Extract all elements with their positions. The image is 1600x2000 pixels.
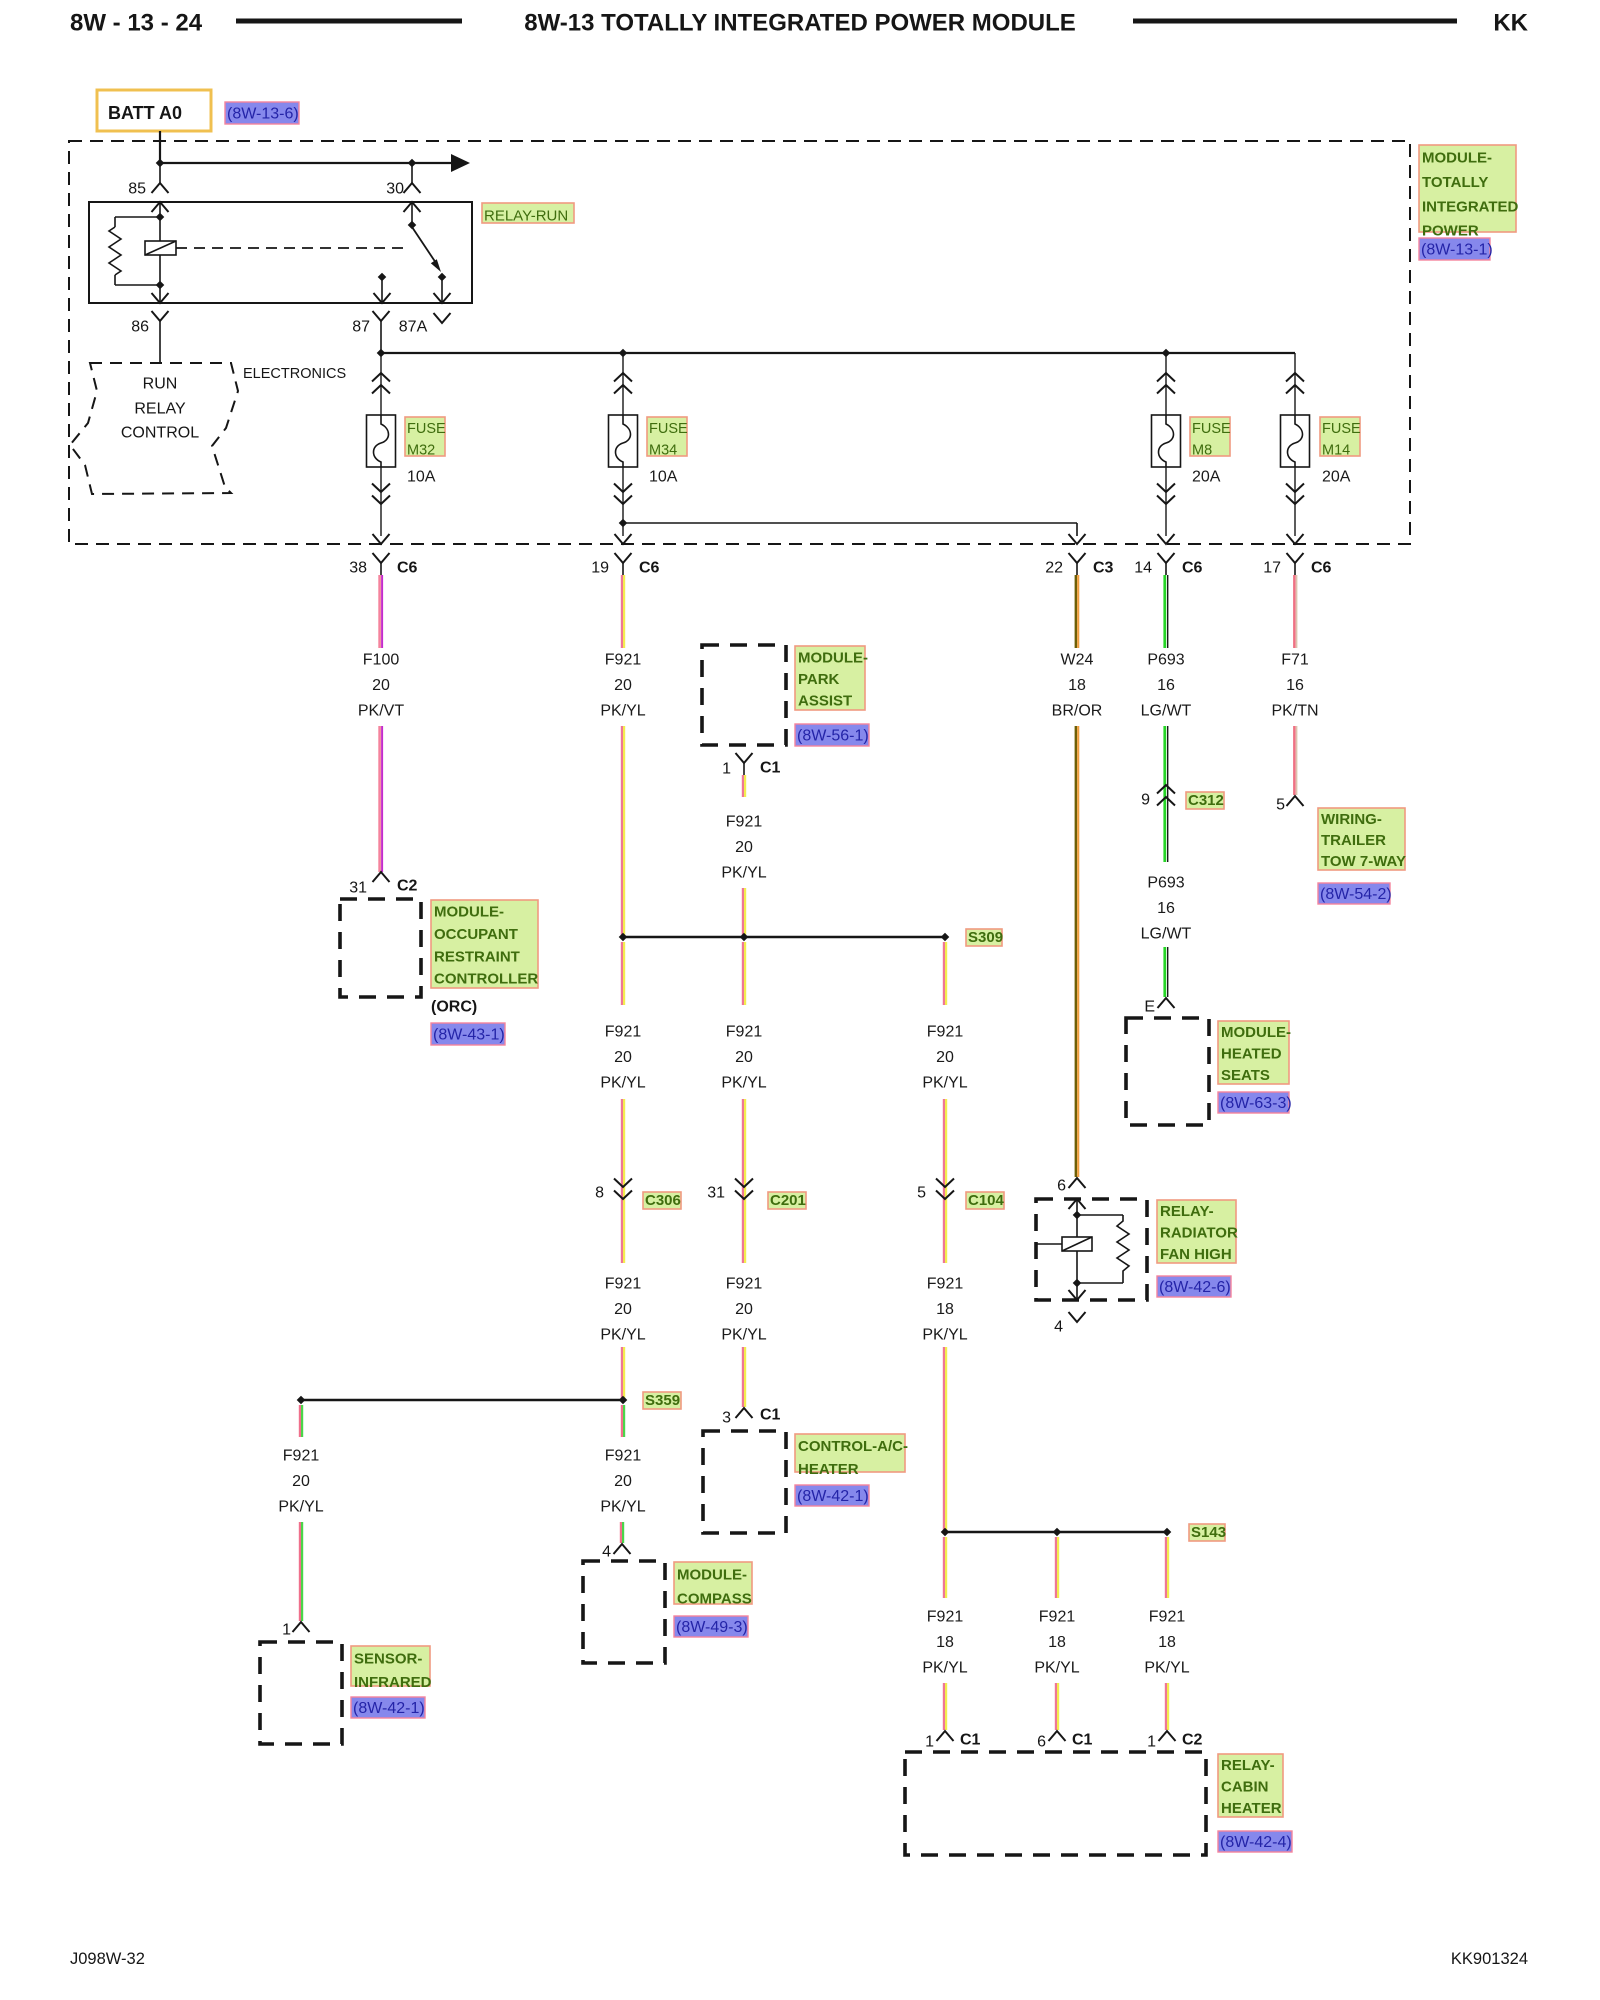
svg-text:SENSOR-: SENSOR-: [354, 1650, 422, 1667]
relay pin 87 stem: [381, 277, 383, 303]
reference label (8W-56-1): [795, 724, 869, 746]
label MODULE-TOTALLY INTEGRATED POWER: [1419, 145, 1516, 232]
wire S309 branch stub x945: [943, 942, 945, 1005]
relay pin 86 exit arrow: [159, 285, 161, 303]
reference label (8W-42-1) ac: [795, 1485, 869, 1506]
node S309 junction left: [619, 933, 628, 942]
svg-text:31: 31: [707, 1185, 725, 1202]
pin 38 C6: [373, 553, 390, 563]
node bus junction 87: [377, 349, 386, 358]
svg-text:87: 87: [352, 319, 370, 336]
node switch common: [408, 221, 417, 230]
connector pin 5 trailer: [1287, 796, 1304, 806]
radiator relay resistor: [1077, 1214, 1123, 1216]
svg-text:PK/YL: PK/YL: [600, 1075, 645, 1092]
wire S143 stub x1167: [1165, 1537, 1167, 1598]
wire to inline connector x744: [742, 1099, 744, 1263]
node S359 junction left: [297, 1396, 306, 1405]
svg-text:C2: C2: [1182, 1732, 1203, 1749]
svg-text:S143: S143: [1191, 1524, 1226, 1541]
pin 19 C6: [615, 553, 632, 563]
module COMPASS boundary: [583, 1561, 665, 1663]
svg-text:C201: C201: [770, 1192, 806, 1209]
svg-text:TOW 7-WAY: TOW 7-WAY: [1321, 853, 1406, 870]
svg-text:M34: M34: [649, 442, 677, 458]
module CONTROL-A/C-HEATER boundary: [703, 1431, 786, 1533]
svg-text:PK/YL: PK/YL: [600, 1499, 645, 1516]
relay RADIATOR FAN HIGH boundary: [1036, 1199, 1147, 1300]
svg-text:9: 9: [1141, 792, 1150, 809]
svg-text:(8W-56-1): (8W-56-1): [797, 728, 869, 745]
svg-text:C312: C312: [1188, 792, 1224, 809]
node S143 junction middle: [1053, 1528, 1062, 1537]
module ORC boundary: [340, 899, 421, 997]
connector C104: [936, 1191, 954, 1200]
svg-text:HEATER: HEATER: [1221, 1800, 1282, 1817]
svg-text:ASSIST: ASSIST: [798, 693, 852, 710]
svg-text:LG/WT: LG/WT: [1141, 926, 1192, 943]
svg-text:20: 20: [936, 1049, 954, 1066]
relay switch blade: [412, 227, 436, 263]
node junction above pin 30: [408, 159, 417, 168]
node coil top junction: [156, 213, 165, 222]
svg-text:(8W-42-1): (8W-42-1): [353, 1700, 425, 1717]
svg-text:WIRING-: WIRING-: [1321, 811, 1382, 828]
svg-text:C1: C1: [1072, 1732, 1093, 1749]
fuse M32: [367, 415, 396, 467]
wire bus drop to fuse M14: [1294, 353, 1296, 415]
svg-text:FUSE: FUSE: [649, 421, 688, 437]
svg-text:PK/YL: PK/YL: [600, 703, 645, 720]
svg-text:8: 8: [595, 1185, 604, 1202]
wire W24 segment 2: [1075, 726, 1077, 1177]
wire BATT A0 feed: [159, 131, 161, 163]
wire F71 segment 2: [1293, 726, 1296, 795]
svg-text:6: 6: [1057, 1178, 1066, 1195]
svg-text:F921: F921: [726, 1024, 763, 1041]
node junction A: [156, 159, 165, 168]
svg-text:86: 86: [131, 319, 149, 336]
wire F921 park assist segment: [742, 775, 744, 797]
wire branch M34 to C3 drop: [623, 522, 1077, 524]
svg-text:1: 1: [282, 1622, 291, 1639]
svg-text:KK: KK: [1493, 10, 1528, 37]
svg-text:85: 85: [128, 181, 146, 198]
fuse M8: [1152, 415, 1181, 467]
node coil bottom junction: [156, 281, 165, 290]
svg-text:PK/YL: PK/YL: [721, 1075, 766, 1092]
label CONTROL-A/C-HEATER: [795, 1434, 905, 1472]
module edge exit chevron M14 column: [1287, 534, 1304, 544]
wire W24 18 BR/OR segment 1: [1075, 575, 1077, 648]
header rule left: [236, 19, 462, 24]
svg-text:C6: C6: [1311, 560, 1332, 577]
svg-text:18: 18: [936, 1301, 954, 1318]
block RUN RELAY CONTROL: [70, 363, 238, 494]
svg-text:RUN: RUN: [143, 376, 178, 393]
svg-text:1: 1: [1147, 1734, 1156, 1751]
svg-text:C306: C306: [645, 1192, 681, 1209]
module edge exit chevron M32 column: [373, 534, 390, 544]
wire S143 stub x1057: [1055, 1537, 1057, 1598]
svg-text:C2: C2: [397, 878, 418, 895]
continuation arrow: [451, 154, 470, 172]
svg-text:(ORC): (ORC): [431, 999, 477, 1016]
svg-text:5: 5: [917, 1185, 926, 1202]
svg-text:M14: M14: [1322, 442, 1350, 458]
svg-text:(8W-43-1): (8W-43-1): [433, 1027, 505, 1044]
svg-text:30: 30: [386, 181, 404, 198]
svg-text:(8W-49-3): (8W-49-3): [676, 1619, 748, 1636]
svg-text:PK/YL: PK/YL: [922, 1660, 967, 1677]
svg-text:C1: C1: [760, 760, 781, 777]
module edge exit chevron M8 column: [1158, 534, 1175, 544]
svg-text:1: 1: [722, 761, 731, 778]
svg-text:RELAY: RELAY: [134, 401, 186, 418]
wire compass drop: [620, 1522, 622, 1543]
connector C201: [735, 1191, 753, 1200]
connector pin 4 radiator relay: [1069, 1312, 1086, 1322]
svg-text:20: 20: [614, 677, 632, 694]
svg-text:22: 22: [1045, 560, 1063, 577]
svg-text:PK/YL: PK/YL: [922, 1327, 967, 1344]
pin 17 C6: [1287, 553, 1304, 563]
svg-text:MODULE-: MODULE-: [1422, 150, 1492, 167]
svg-text:F921: F921: [927, 1276, 964, 1293]
label FUSE M34: [647, 417, 687, 456]
svg-text:CABIN: CABIN: [1221, 1778, 1269, 1795]
svg-text:F921: F921: [1149, 1609, 1186, 1626]
svg-text:S309: S309: [968, 929, 1003, 946]
relay RELAY-RUN outline: [89, 202, 472, 303]
reference label (8W-42-4): [1218, 1831, 1292, 1852]
wire S143 drop x1167: [1165, 1683, 1167, 1730]
svg-text:31: 31: [349, 880, 367, 897]
svg-text:ELECTRONICS: ELECTRONICS: [243, 366, 346, 382]
svg-text:PK/YL: PK/YL: [1034, 1660, 1079, 1677]
svg-text:F71: F71: [1281, 652, 1309, 669]
svg-text:F921: F921: [283, 1448, 320, 1465]
pin 22 C3: [1069, 553, 1086, 563]
wire F921 20 PK/YL segment 1 (pin 19): [621, 575, 623, 648]
svg-text:18: 18: [1158, 1634, 1176, 1651]
svg-text:E: E: [1144, 999, 1155, 1016]
label C306: [643, 1192, 681, 1209]
wire sensor drop: [299, 1522, 301, 1621]
svg-text:20: 20: [735, 839, 753, 856]
svg-text:S359: S359: [645, 1392, 680, 1409]
connector chevrons above fuse M8: [1157, 373, 1175, 382]
module SENSOR-INFRARED boundary: [260, 1642, 342, 1744]
splice S143 bus: [945, 1531, 1167, 1534]
svg-text:6: 6: [1037, 1734, 1046, 1751]
svg-text:20: 20: [614, 1473, 632, 1490]
fuse M34: [609, 415, 638, 467]
connector C312: [1157, 785, 1175, 794]
svg-text:4: 4: [1054, 1319, 1063, 1336]
label S359: [643, 1392, 681, 1409]
label S309: [966, 929, 1002, 946]
wire internal bus: [381, 352, 1295, 354]
svg-text:CONTROLLER: CONTROLLER: [434, 971, 538, 988]
svg-text:20: 20: [372, 677, 390, 694]
label C201: [768, 1192, 806, 1209]
reference label (8W-63-3): [1218, 1092, 1289, 1113]
svg-text:PK/VT: PK/VT: [358, 703, 404, 720]
wire P693 segment 3: [1163, 947, 1166, 997]
svg-text:18: 18: [936, 1634, 954, 1651]
connector 31 C2: [373, 872, 390, 882]
label SENSOR-INFRARED: [351, 1646, 430, 1686]
relay pin 87A stem: [441, 277, 443, 303]
svg-text:1: 1: [925, 1734, 934, 1751]
reference label (8W-43-1): [431, 1023, 505, 1045]
relay pin 85 entry arrow: [152, 202, 169, 212]
svg-text:MODULE-: MODULE-: [1221, 1024, 1291, 1041]
connector chevrons below fuse M14: [1286, 496, 1304, 505]
connector chevrons above fuse M32: [372, 373, 390, 382]
relay coil K1: [145, 241, 176, 255]
splice S309 bus: [623, 936, 945, 939]
label MODULE-COMPASS: [674, 1562, 752, 1604]
svg-text:F921: F921: [605, 1276, 642, 1293]
connector 3 C1: [736, 1408, 753, 1418]
module edge exit chevron C3 column: [1069, 534, 1086, 544]
svg-text:PK/TN: PK/TN: [1271, 703, 1318, 720]
svg-text:CONTROL: CONTROL: [121, 425, 199, 442]
reference label (8W-42-1) sensor: [351, 1697, 425, 1718]
svg-text:KK901324: KK901324: [1451, 1950, 1528, 1968]
node BATT A0: [97, 90, 211, 131]
wire P693 segment 2: [1163, 726, 1166, 862]
pin 1 C1 park assist: [736, 753, 753, 763]
svg-text:PK/YL: PK/YL: [278, 1499, 323, 1516]
svg-text:20: 20: [735, 1301, 753, 1318]
wire S143 drop x945: [943, 1683, 945, 1730]
svg-text:20: 20: [735, 1049, 753, 1066]
connector chevrons below fuse M32: [372, 496, 390, 505]
wire bus drop to fuse M8: [1165, 353, 1167, 415]
svg-text:TOTALLY: TOTALLY: [1422, 174, 1488, 191]
svg-text:PK/YL: PK/YL: [922, 1075, 967, 1092]
svg-text:POWER: POWER: [1422, 223, 1479, 240]
svg-text:C6: C6: [397, 560, 418, 577]
node switch NC contact: [378, 273, 387, 282]
svg-text:RADIATOR: RADIATOR: [1160, 1224, 1238, 1241]
reference label (8W-42-6): [1157, 1276, 1231, 1297]
svg-text:INFRARED: INFRARED: [354, 1674, 432, 1691]
svg-text:8W-13 TOTALLY INTEGRATED POWER: 8W-13 TOTALLY INTEGRATED POWER MODULE: [524, 10, 1076, 37]
radiator relay coil: [1062, 1237, 1092, 1251]
svg-text:FUSE: FUSE: [407, 421, 446, 437]
svg-text:RELAY-RUN: RELAY-RUN: [484, 208, 568, 225]
svg-text:18: 18: [1068, 677, 1086, 694]
relay pin 30 entry arrow: [404, 202, 421, 212]
reference label (8W-13-1): [1419, 238, 1490, 260]
svg-text:87A: 87A: [399, 319, 428, 336]
wire bus drop to fuse M32: [380, 353, 382, 415]
svg-text:PK/YL: PK/YL: [1144, 1660, 1189, 1677]
svg-text:F921: F921: [605, 652, 642, 669]
svg-text:16: 16: [1157, 900, 1175, 917]
wire F100 segment 2: [378, 726, 381, 872]
svg-text:HEATER: HEATER: [798, 1461, 859, 1478]
relay suppression resistor: [115, 216, 160, 218]
svg-text:18: 18: [1048, 1634, 1066, 1651]
svg-text:14: 14: [1134, 560, 1152, 577]
svg-text:F921: F921: [1039, 1609, 1076, 1626]
wire F921 to S143: [943, 1347, 945, 1532]
node S143 junction right: [1163, 1528, 1172, 1537]
svg-text:(8W-42-4): (8W-42-4): [1220, 1834, 1292, 1851]
svg-text:F921: F921: [605, 1024, 642, 1041]
svg-text:M8: M8: [1192, 442, 1212, 458]
svg-text:HEATED: HEATED: [1221, 1045, 1282, 1062]
fuse M14: [1281, 415, 1310, 467]
wire S143 stub x945: [943, 1537, 945, 1598]
node switch NO contact: [438, 273, 447, 282]
svg-text:C1: C1: [760, 1407, 781, 1424]
wire S359 down stub: [621, 1405, 623, 1437]
wire bus to continuation arrow: [160, 162, 452, 164]
wire P693 16 LG/WT segment 1: [1163, 575, 1166, 648]
wire S309 branch stub x623: [621, 942, 623, 1005]
connector pin 6 radiator relay: [1069, 1178, 1086, 1188]
svg-text:20: 20: [614, 1049, 632, 1066]
svg-text:RESTRAINT: RESTRAINT: [434, 948, 520, 965]
svg-text:(8W-13-6): (8W-13-6): [227, 106, 299, 123]
wire S309 branch stub x744: [742, 942, 744, 1005]
relay CABIN HEATER boundary: [905, 1752, 1206, 1855]
svg-text:INTEGRATED: INTEGRATED: [1422, 198, 1519, 215]
wire F71 16 PK/TN segment 1: [1293, 575, 1296, 648]
wire S359 left stub: [299, 1405, 301, 1437]
svg-text:M32: M32: [407, 442, 435, 458]
node branch junction below M34: [619, 519, 628, 528]
svg-text:MODULE-: MODULE-: [798, 649, 868, 666]
svg-text:4: 4: [602, 1544, 611, 1561]
svg-text:20A: 20A: [1322, 469, 1351, 486]
svg-text:CONTROL-A/C-: CONTROL-A/C-: [798, 1438, 908, 1455]
node S309 junction middle: [740, 933, 749, 942]
svg-text:C6: C6: [1182, 560, 1203, 577]
node bus junction M8: [1162, 349, 1171, 358]
svg-text:FUSE: FUSE: [1192, 421, 1231, 437]
wire to relay pin 85: [159, 163, 161, 183]
wire F921 to AC control: [742, 1347, 744, 1407]
connector chevrons below fuse M34: [614, 496, 632, 505]
connector pin E heated seats: [1158, 998, 1175, 1008]
svg-text:5: 5: [1276, 797, 1285, 814]
svg-text:(8W-63-3): (8W-63-3): [1220, 1095, 1292, 1112]
svg-text:J098W-32: J098W-32: [70, 1950, 145, 1968]
wire F100 20 PK/VT segment 1: [378, 575, 381, 648]
svg-text:C1: C1: [960, 1732, 981, 1749]
svg-text:COMPASS: COMPASS: [677, 1591, 752, 1608]
reference label (8W-13-6): [225, 102, 299, 124]
label C104: [966, 1192, 1004, 1209]
node bus junction M34: [619, 349, 628, 358]
svg-text:10A: 10A: [649, 469, 678, 486]
connector pin 1 sensor: [293, 1622, 310, 1632]
module PARK ASSIST boundary: [702, 645, 786, 745]
label S143: [1189, 1524, 1225, 1541]
pin 14 C6: [1158, 553, 1175, 563]
wire to inline connector x623: [621, 1099, 623, 1263]
connector 1 C2 cabin: [1159, 1731, 1176, 1741]
connector chevrons below fuse M8: [1157, 496, 1175, 505]
svg-text:PK/YL: PK/YL: [721, 865, 766, 882]
svg-text:17: 17: [1263, 560, 1281, 577]
node radiator coil bottom: [1073, 1279, 1082, 1288]
svg-text:F921: F921: [605, 1448, 642, 1465]
label RELAY-CABIN HEATER: [1218, 1754, 1283, 1817]
svg-text:F921: F921: [726, 814, 763, 831]
label RELAY-RUN: [482, 203, 574, 223]
wire S143 drop x1057: [1055, 1683, 1057, 1730]
wire below fuse M34: [622, 467, 624, 536]
label C312: [1186, 792, 1224, 809]
node S143 junction left: [941, 1528, 950, 1537]
svg-text:F100: F100: [363, 652, 400, 669]
svg-text:PK/YL: PK/YL: [600, 1327, 645, 1344]
wire bus drop to fuse M34: [622, 353, 624, 415]
svg-text:20: 20: [292, 1473, 310, 1490]
svg-text:RELAY-: RELAY-: [1160, 1203, 1214, 1220]
node S359 junction right: [619, 1396, 628, 1405]
svg-text:FAN HIGH: FAN HIGH: [1160, 1246, 1232, 1263]
svg-text:P693: P693: [1147, 875, 1184, 892]
svg-text:MODULE-: MODULE-: [677, 1567, 747, 1584]
svg-text:(8W-13-1): (8W-13-1): [1421, 242, 1493, 259]
label RELAY-RADIATOR FAN HIGH: [1157, 1200, 1236, 1263]
wire F921 pin19 segment 2: [621, 726, 623, 937]
svg-text:20: 20: [614, 1301, 632, 1318]
wire below fuse M14: [1294, 467, 1296, 536]
relay mechanical link: [176, 247, 404, 249]
wire below fuse M8: [1165, 467, 1167, 536]
module TIPM boundary: [69, 141, 1410, 544]
connector 1 C1 cabin: [937, 1731, 954, 1741]
wire below fuse M32: [380, 467, 382, 536]
connector pin 4 compass: [614, 1544, 631, 1554]
svg-text:C6: C6: [639, 560, 660, 577]
svg-text:C3: C3: [1093, 560, 1114, 577]
svg-text:LG/WT: LG/WT: [1141, 703, 1192, 720]
svg-text:3: 3: [722, 1410, 731, 1427]
reference label (8W-54-2): [1318, 883, 1390, 904]
pin 87A connector: [434, 313, 451, 323]
svg-text:SEATS: SEATS: [1221, 1067, 1270, 1084]
svg-text:38: 38: [349, 560, 367, 577]
svg-text:19: 19: [591, 560, 609, 577]
radiator relay entry arrow: [1069, 1199, 1086, 1209]
svg-text:C104: C104: [968, 1192, 1005, 1209]
svg-text:RELAY-: RELAY-: [1221, 1757, 1275, 1774]
svg-text:(8W-42-6): (8W-42-6): [1159, 1279, 1231, 1296]
node S309 junction right: [941, 933, 950, 942]
label MODULE-HEATED SEATS: [1218, 1021, 1289, 1084]
svg-text:16: 16: [1157, 677, 1175, 694]
svg-text:16: 16: [1286, 677, 1304, 694]
svg-text:FUSE: FUSE: [1322, 421, 1361, 437]
svg-text:F921: F921: [927, 1609, 964, 1626]
svg-text:BR/OR: BR/OR: [1052, 703, 1103, 720]
label FUSE M14: [1320, 417, 1360, 456]
radiator relay exit arrow: [1076, 1283, 1078, 1300]
reference label (8W-49-3): [674, 1616, 748, 1637]
svg-text:BATT A0: BATT A0: [108, 103, 182, 123]
